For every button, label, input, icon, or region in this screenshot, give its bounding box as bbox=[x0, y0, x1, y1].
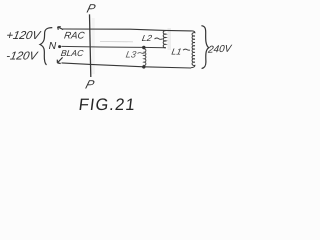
junction dot center tap bbox=[142, 46, 145, 49]
junction dot L3 bottom bbox=[142, 65, 145, 68]
brace } for 240V output bbox=[201, 26, 208, 69]
inductor L2 (top half winding) bbox=[163, 31, 166, 48]
svg-text:+120V: +120V bbox=[5, 30, 42, 42]
scan artifact band near L2 coil bbox=[168, 28, 172, 50]
inductor L1 (full 240V winding) bbox=[191, 31, 195, 68]
svg-text:240V: 240V bbox=[207, 43, 233, 55]
svg-text:L1: L1 bbox=[171, 47, 183, 57]
wire: BLAC hot line to L3 bottom and L1 bottom bbox=[62, 63, 192, 68]
svg-text:RAC: RAC bbox=[63, 30, 85, 41]
node N dot bbox=[58, 45, 61, 48]
svg-text:-120V: -120V bbox=[5, 51, 39, 63]
svg-text:BLAC: BLAC bbox=[60, 48, 85, 58]
svg-text:FIG.21: FIG.21 bbox=[78, 95, 137, 114]
wire: RAC hot line to L2/L1 tops bbox=[63, 29, 192, 31]
scan artifact faint line right of P bbox=[100, 40, 133, 42]
wire: vertical bus P bbox=[90, 14, 91, 77]
svg-text:L2: L2 bbox=[141, 33, 153, 43]
paper background bbox=[0, 0, 240, 117]
wire: neutral line from N to center tap bbox=[62, 46, 166, 47]
arrow leader for BLAC bbox=[57, 57, 62, 63]
arrow leader for RAC bbox=[58, 27, 64, 30]
brace { grouping supply terminals bbox=[40, 28, 52, 65]
scan artifact smear near P line bbox=[92, 18, 95, 74]
inductor L3 (bottom half winding) bbox=[144, 49, 146, 67]
svg-text:N: N bbox=[49, 40, 57, 52]
